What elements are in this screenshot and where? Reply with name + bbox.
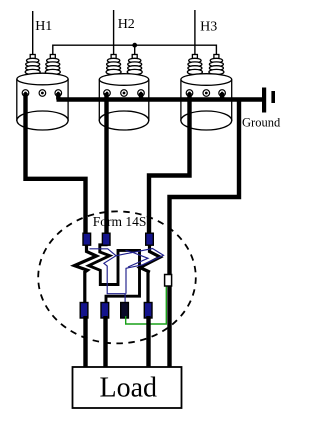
T3 tank body: [180, 80, 182, 122]
svg-text:H3: H3: [200, 20, 217, 35]
load box: [73, 367, 182, 408]
wire T3 X1 terminal down to meter terminal 3: [149, 93, 190, 236]
meter top terminal 3: [146, 233, 154, 245]
meter current coil 3 (zigzag): [140, 244, 160, 302]
wire interconnecting H2 bushings (top connector bus): [53, 45, 217, 55]
transformer T3: [181, 55, 232, 131]
transformer T2: [99, 55, 149, 131]
svg-text:Form 14S: Form 14S: [93, 214, 147, 229]
wire neutral bypass from bus down around meter to load: [170, 100, 240, 368]
T2 secondary terminals X1 X2 X3: [104, 90, 145, 97]
meter bottom terminal 1: [80, 303, 88, 319]
wire T2 X2 terminal to bus: [139, 93, 143, 100]
meter bottom terminal 4: [144, 303, 152, 319]
svg-text:Ground: Ground: [242, 116, 281, 130]
node H2 lead wire: [113, 10, 115, 55]
wire meter terminal 2 to load: [103, 316, 107, 367]
node H1 lead wire: [32, 11, 34, 55]
voltage wiring (blue) right zigzag: [116, 249, 164, 294]
T3 secondary terminals X1 X2 X3: [186, 90, 225, 97]
svg-text:H2: H2: [118, 17, 135, 32]
test switch (white rect) on bypass wire: [165, 275, 172, 287]
meter bottom terminal 3 (black): [121, 303, 129, 319]
node junction dot on connector: [132, 43, 137, 48]
T2 tank body: [98, 80, 100, 122]
svg-text:Load: Load: [100, 373, 158, 404]
voltage wiring (blue) left run: [90, 249, 126, 303]
meter bottom terminal 2: [101, 303, 109, 319]
wire meter terminal 1 to load: [83, 316, 87, 367]
wire drop to transformer T2 right bushing: [134, 45, 136, 55]
meter current coil 2 (continuous loop): [89, 244, 140, 302]
transformer T1: [17, 55, 68, 131]
meter dashed circle: [38, 211, 196, 343]
svg-text:H1: H1: [35, 19, 52, 34]
wire T2 X1 terminal down to meter terminal 2: [104, 93, 108, 236]
meter top terminal 2: [102, 233, 110, 245]
wire neutral bus to ground: [57, 97, 264, 101]
ground electrode symbol: [262, 88, 275, 113]
voltage wiring (blue) inner diagonal: [126, 251, 149, 268]
meter top terminal 1: [83, 233, 91, 245]
T1 tank body: [16, 79, 18, 121]
node H3 lead wire: [194, 10, 196, 55]
T1 bushing H1 (left) and bushing H2 (right): [25, 55, 60, 75]
T1 secondary terminals X1 X2 X3: [22, 90, 61, 97]
wire T3 X2 terminal to bus: [220, 93, 224, 100]
T2 bushing H1 (left) and bushing H2 (right): [106, 55, 142, 75]
meter current coil 1 (zigzag): [74, 244, 96, 302]
wire meter terminal 4 to load: [146, 316, 150, 367]
wire T1 X1 terminal down to meter terminal 1: [26, 93, 86, 236]
ground wire (green) from terminal to bypass: [126, 286, 167, 324]
T3 bushing H1 (left) and bushing H2 (right): [187, 55, 224, 75]
wire T1 X2 terminal to bus: [56, 93, 60, 100]
